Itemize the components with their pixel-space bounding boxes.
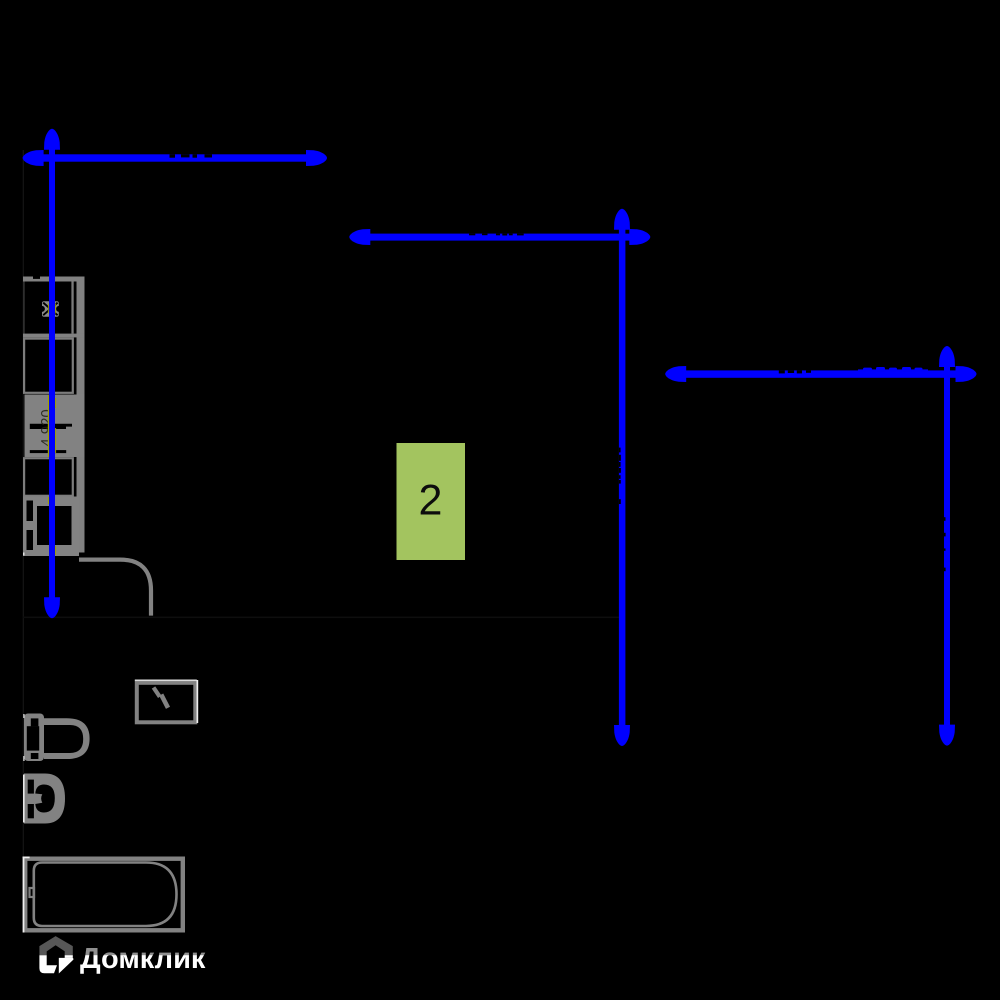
kitchen cabinet 1 (sink cabinet): [23, 277, 85, 338]
vertical arrow V3 right: [944, 363, 950, 728]
horizontal arrow A3 right: [682, 370, 960, 377]
bathtub: [23, 857, 183, 933]
A3 dim text notches left: [779, 370, 785, 373]
kitchen cabinet 2: [24, 339, 73, 393]
A1 dim text notches: [170, 154, 176, 157]
V3 dim text notches (rotated digits): [944, 517, 946, 521]
kitchen cabinet 4: [24, 458, 73, 496]
horizontal arrow A1 top-left: [40, 154, 310, 161]
Domclick logo house icon: white bottom part: [39, 955, 73, 973]
wash basin: [23, 774, 65, 824]
kitchen cabinet 5 (appliance): [23, 497, 79, 557]
svg-text:2: 2: [419, 477, 443, 525]
kitchen wall band right of cabinets: [77, 277, 85, 553]
vertical arrow V2 middle: [619, 226, 626, 729]
faint wall left vertical: [23, 150, 24, 930]
green room 2 rectangle: [397, 443, 466, 560]
blue dimension arrows: [23, 129, 977, 746]
Domclick logo house icon: gray roof part: [39, 936, 72, 955]
stove slot 1: [30, 424, 72, 429]
kitchen sink X symbol (4-petal): [39, 301, 62, 317]
kitchen counter curved edge: [79, 560, 151, 616]
faint wall bottom horizontal: [23, 617, 621, 619]
V2 dim text notches (rotated digits): [619, 448, 621, 453]
toilet: [23, 714, 89, 762]
blue bumps above A3 right text: [858, 367, 928, 372]
stove slot 2: [30, 450, 66, 453]
dimension text notches (black cuts into blue lines): [170, 154, 946, 571]
svg-text:Домклик: Домклик: [80, 943, 206, 975]
kitchen stove (filled): [25, 395, 85, 458]
yellow jpeg fringes along V1 at stove: [48, 304, 56, 556]
A2 dim text notches: [469, 234, 475, 236]
vertical arrow V1 left: [49, 146, 55, 601]
horizontal arrow A2 middle: [366, 234, 634, 241]
electric box: [135, 680, 198, 724]
